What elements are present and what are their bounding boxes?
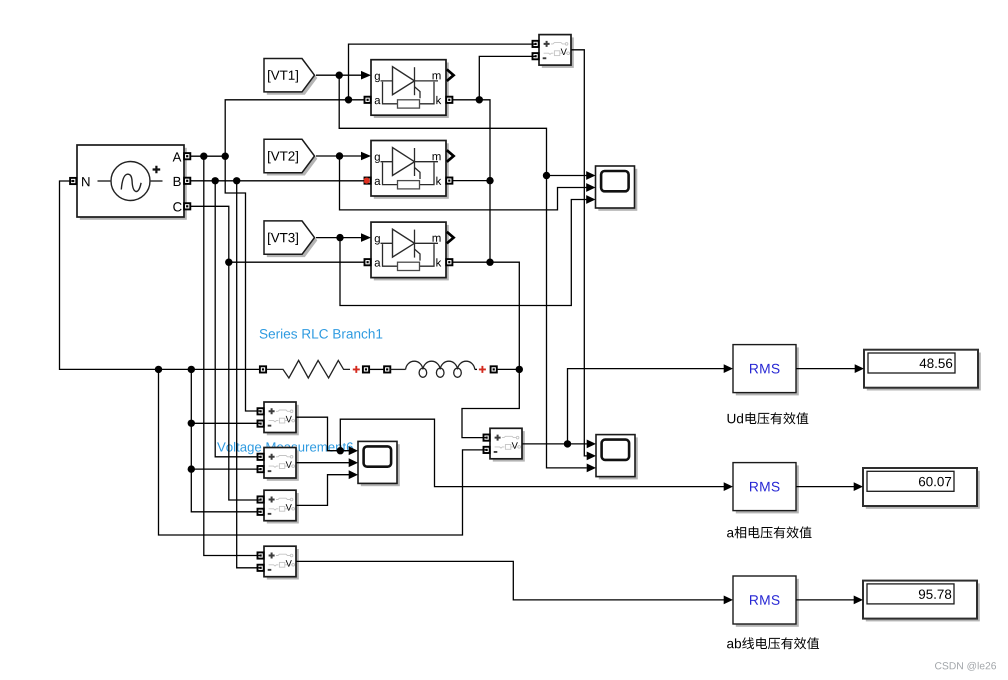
port source C [184, 203, 190, 209]
port pin k VT3 [446, 259, 452, 265]
junction N branch to Ud VM minus [155, 366, 162, 373]
wire N to VM-B minus [191, 468, 261, 470]
wire VM-Ud out to RMS Ud [568, 369, 725, 444]
wire VT3 cathode to load [452, 262, 519, 369]
wire VT1 cathode down [452, 100, 490, 262]
wire source C down to VM-C plus [190, 206, 261, 500]
wire load node to VM-Ud plus [462, 369, 519, 437]
label line-ab RMS value label [727, 637, 819, 649]
junction VM-A out tap [337, 447, 344, 454]
junction C / VT3 anode tap [225, 259, 232, 266]
red plus polarity marker (L right) [479, 366, 486, 373]
pin g input arrow VT3 [361, 233, 371, 242]
wire VT3 gate to Scope1 in3 [340, 200, 587, 306]
wire inductor to node [497, 368, 519, 370]
display block Display Ud (48.56) [864, 350, 981, 391]
wire B down to VM-AB minus [237, 181, 261, 568]
wire VT3 tag to gate [316, 237, 362, 239]
resistor element (Series RLC Branch1 R) [266, 360, 350, 378]
junction N branch to VM minuses [188, 366, 195, 373]
arrowhead RMS ab input [724, 596, 733, 605]
arrowhead Scope1 in1 [586, 171, 595, 180]
RMS block RMS line ab [733, 576, 799, 627]
scope block Scope2 (Ud) [596, 435, 638, 480]
wire A down to VM-AB plus [204, 156, 261, 555]
arrowhead Scope1 in3 [586, 195, 595, 204]
signal tag [VT3] gate pulse [264, 221, 317, 257]
wire N to VM Ud minus [159, 369, 487, 535]
label phase-a RMS value label [727, 526, 811, 538]
wire A down to VM-A plus [225, 156, 261, 411]
wire VM-A out to Scope3 in1 [296, 417, 349, 451]
arrowhead Scope1 in2 [586, 183, 595, 192]
arrowhead Scope2 in2 [587, 452, 596, 461]
wire RMS Ud to display [796, 368, 855, 370]
arrowhead Display ab input [854, 596, 863, 605]
wire N to VM-A minus [191, 422, 261, 424]
wire N down to VM-C minus [191, 369, 261, 511]
arrowhead RMS a input [724, 482, 733, 491]
junction cathode bus / VT3 [486, 259, 493, 266]
thyristor block VT1 [371, 60, 449, 118]
port VM phase B - input [258, 466, 264, 472]
port source A [184, 153, 190, 159]
port VM VT1 (top) + input [533, 41, 539, 47]
voltage measurement block VM phase C [264, 490, 299, 523]
port VM phase A - input [258, 421, 264, 427]
signal tag [VT2] gate pulse [264, 139, 317, 175]
port VM phase B + input [258, 454, 264, 460]
port pin k VT1 [446, 97, 452, 103]
wire VT2 gate to Scope1 in2 [340, 156, 587, 210]
wire VT2 tag to gate [316, 155, 362, 157]
signal tag [VT1] gate pulse [264, 59, 317, 95]
junction VT1 cathode / VM-VT1 minus tap [476, 96, 483, 103]
port VM Ud (load) + input [484, 435, 490, 441]
pin m output chevron VT1 [447, 69, 454, 81]
port VM phase C - input [258, 509, 264, 515]
scope block Scope1 (gate pulses) [596, 166, 638, 211]
red marker at VT2 a port [364, 178, 370, 184]
port pin a VT3 [365, 259, 371, 265]
wire B down to VM-B plus [215, 181, 261, 457]
junction cathode bus / VT2 [486, 177, 493, 184]
junction VT2 gate tap [336, 152, 343, 159]
wire A up to VT1 anode [225, 100, 364, 156]
arrowhead Scope3 in2 [349, 458, 358, 467]
annotation Voltage Measurement6 [217, 442, 353, 454]
wire VT1 gate to scopes [339, 75, 587, 468]
inductor element (Series RLC Branch1 L) [390, 368, 405, 370]
junction VT1 gate tap [336, 72, 343, 79]
voltage measurement block VM Ud (load) [490, 428, 525, 461]
port pin k VT2 [446, 178, 452, 184]
thyristor block VT3 [371, 222, 449, 280]
wire R-to-L gap [369, 368, 384, 370]
red plus polarity marker (R right) [353, 366, 360, 373]
wire RMS ab to display [796, 599, 854, 601]
wire VM-VT1 out to Scope2 in2 [571, 50, 587, 456]
wire VT1 tag to gate [316, 74, 362, 76]
junction B tap to VM-B [212, 177, 219, 184]
wire VT1 cathode to VM-VT1 minus [479, 56, 536, 99]
wire VT2 cathode [452, 180, 490, 182]
port L right / branch output [491, 366, 497, 372]
port VM line AB - input [258, 565, 264, 571]
wire source N down and to RLC branch [60, 181, 261, 369]
arrowhead Scope3 in1 [349, 446, 358, 455]
scope block Scope3 (phase voltages) [358, 441, 400, 486]
label Ud RMS value label [728, 412, 809, 424]
wire RMS a to display [796, 486, 854, 488]
junction N/VM-A minus tap [188, 420, 195, 427]
wire VM-C out to Scope3 in3 [296, 475, 349, 506]
junction VM-Ud out tap to RMS [564, 440, 571, 447]
junction A tap up/down [222, 153, 229, 160]
pin g input arrow VT1 [361, 71, 371, 80]
pin m output chevron VT3 [447, 232, 454, 244]
junction A tap to VM-AB [200, 153, 207, 160]
voltage measurement block VM phase B [264, 448, 299, 481]
arrowhead Scope2 in3 [587, 464, 596, 473]
three-phase AC source block [77, 145, 187, 220]
arrowhead RMS Ud input [724, 364, 733, 373]
display block Display ab (95.78) [863, 581, 980, 622]
arrowhead Scope3 in3 [349, 470, 358, 479]
port VM phase C + input [258, 496, 264, 502]
wire L coil to plus [475, 368, 477, 370]
arrowhead Display a input [854, 482, 863, 491]
pin m output chevron VT2 [447, 150, 454, 162]
junction N/VM-B minus tap [188, 465, 195, 472]
port pin a VT1 [365, 97, 371, 103]
wire source A output [190, 155, 225, 157]
junction VT3 gate tap [336, 234, 343, 241]
wire VM-B out to Scope3 in2 [296, 462, 349, 464]
voltage measurement block VM line AB [264, 546, 299, 579]
port VM Ud (load) - input [484, 447, 490, 453]
port pin a VT2 [365, 178, 371, 184]
arrowhead Scope2 in1 [587, 440, 596, 449]
voltage measurement block VM VT1 (top) [539, 35, 574, 68]
junction VT1 gate / scope1 tap [543, 172, 550, 179]
port VM phase A + input [258, 408, 264, 414]
annotation Series RLC Branch1 [260, 329, 383, 339]
junction load top node [516, 366, 523, 373]
wire VM-Ud out to Scope2 in1 [522, 443, 587, 445]
port source B [184, 178, 190, 184]
arrowhead Display Ud input [855, 364, 864, 373]
thyristor block VT2 [371, 141, 449, 199]
port RLC branch left [260, 366, 266, 372]
watermark CSDN @le26 [935, 662, 996, 671]
display block Display a (60.07) [863, 468, 980, 509]
wire VT1 anode to VM-VT1 plus [349, 44, 536, 100]
pin g input arrow VT2 [361, 152, 371, 161]
RMS block RMS Ud [733, 345, 799, 396]
port VM VT1 (top) - input [533, 53, 539, 59]
wire VT1 gate to Scope1 in1 [547, 175, 587, 177]
junction B tap to VM-AB [233, 177, 240, 184]
port L left [384, 366, 390, 372]
wire C to VT3 anode [229, 261, 364, 263]
port source N [70, 178, 76, 184]
voltage measurement block VM phase A [264, 402, 299, 435]
wire VM-A out to RMS a [340, 419, 724, 486]
port VM line AB + input [258, 552, 264, 558]
port R right [363, 366, 369, 372]
wire VM-AB out to RMS ab [296, 561, 724, 600]
junction VT1 anode / VM-VT1 plus tap [345, 96, 352, 103]
wire source B to VT2 anode [190, 180, 364, 182]
RMS block RMS phase a [733, 463, 799, 514]
